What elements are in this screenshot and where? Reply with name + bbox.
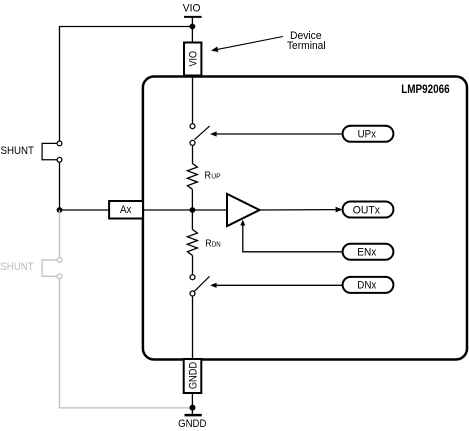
pin ENx	[343, 244, 394, 260]
wire R_UP to center node	[191, 189, 193, 229]
switch SW_UP	[190, 124, 210, 146]
node ground junction	[190, 405, 196, 411]
shunt switch S2 (disabled)	[42, 258, 62, 279]
terminal VIO box	[184, 43, 201, 76]
wire gray from shunt S2 to ground rail	[60, 279, 193, 408]
power flag VIO	[183, 2, 202, 42]
IC body LMP92066	[143, 77, 467, 360]
resistor R_DN	[187, 229, 220, 255]
svg-text:DNx: DNx	[357, 280, 376, 292]
node junction at VIO rail	[190, 24, 196, 30]
svg-text:UP: UP	[211, 172, 220, 181]
ground flag GNDD	[178, 415, 206, 430]
svg-text:UPx: UPx	[358, 129, 377, 141]
svg-text:GNDD: GNDD	[187, 362, 199, 389]
node left junction	[57, 207, 63, 213]
svg-text:SHUNT: SHUNT	[0, 261, 34, 273]
svg-text:GNDD: GNDD	[178, 418, 206, 430]
svg-text:LMP92066: LMP92066	[401, 84, 450, 96]
pin UPx	[343, 126, 394, 142]
wire GNDD terminal to ground flag	[191, 393, 193, 415]
pin DNx	[343, 277, 394, 293]
switch SW_DN	[190, 275, 210, 296]
resistor R_UP	[187, 163, 220, 189]
wire ENx control to buffer	[240, 220, 342, 252]
wire R_DN to switch SW_DN	[192, 255, 194, 274]
svg-text:ENx: ENx	[357, 247, 376, 259]
svg-text:VIO: VIO	[183, 2, 201, 14]
wire left node to Ax	[60, 209, 110, 211]
wire left node up to shunt S1	[59, 163, 61, 210]
terminal Ax box	[109, 201, 143, 219]
wire arrow from DNx control	[210, 283, 343, 288]
svg-text:SHUNT: SHUNT	[1, 145, 35, 157]
wire VIO terminal to switch SW_UP	[192, 76, 194, 124]
svg-text:OUTx: OUTx	[353, 204, 381, 216]
svg-text:Terminal: Terminal	[287, 40, 326, 52]
wire gray from left node to shunt S2	[59, 210, 61, 258]
op-amp buffer U1	[227, 194, 260, 226]
svg-text:VIO: VIO	[188, 51, 200, 67]
wire SW_DN to GNDD terminal	[192, 296, 194, 359]
wire Ax to buffer input	[143, 209, 227, 211]
pin OUTx	[343, 202, 394, 218]
wire from VIO rail to left branch	[60, 27, 193, 141]
annotation Device Terminal with arrow	[211, 30, 326, 52]
wire switch to resistor R_UP	[192, 146, 194, 164]
shunt switch S1	[42, 141, 62, 162]
node center junction	[190, 207, 196, 213]
wire buffer output to OUTx	[260, 207, 343, 213]
svg-text:DN: DN	[212, 240, 221, 249]
svg-text:Ax: Ax	[120, 204, 132, 216]
terminal GNDD box	[184, 359, 202, 393]
wire arrow from UPx control	[210, 131, 343, 136]
